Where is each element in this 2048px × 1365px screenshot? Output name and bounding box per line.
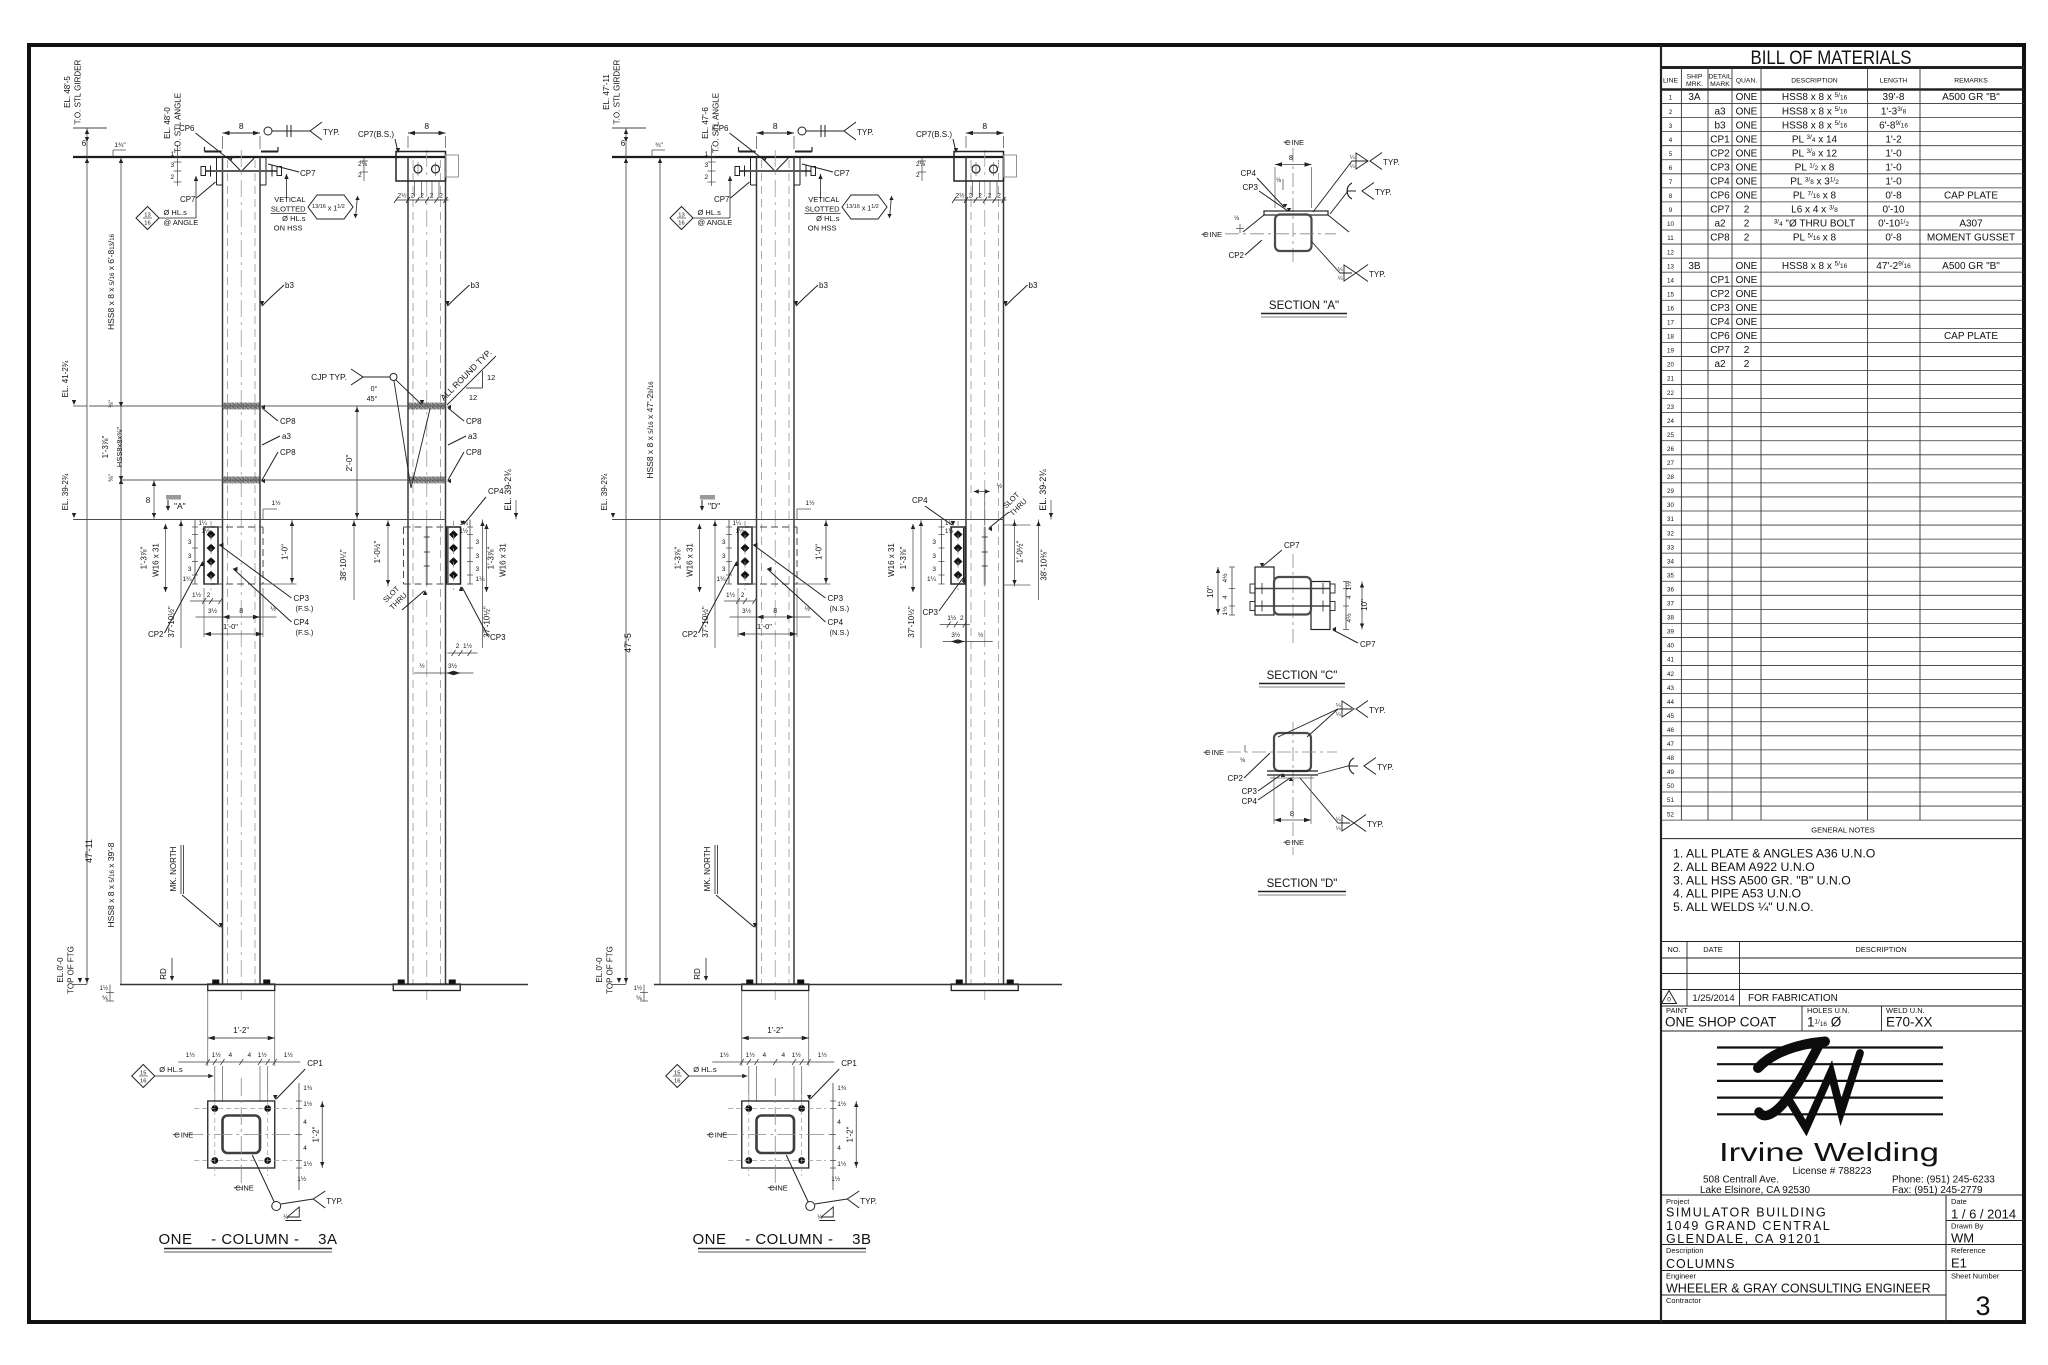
svg-text:Ø HL.s: Ø HL.s [159,1065,183,1074]
svg-text:8: 8 [1290,809,1294,818]
svg-text:PL 3/8 x 12: PL 3/8 x 12 [1792,148,1838,159]
svg-text:½: ½ [978,631,984,639]
section C left angle CP7 [1255,567,1274,615]
svg-text:INE: INE [241,1184,254,1193]
svg-text:1'-3⅞": 1'-3⅞" [101,436,110,459]
svg-text:CP3: CP3 [490,633,506,642]
svg-text:4: 4 [762,1052,766,1059]
svg-text:8: 8 [1289,153,1293,162]
svg-text:SECTION "C": SECTION "C" [1267,670,1338,682]
3B girder level tick [612,127,646,129]
svg-text:3: 3 [932,553,936,560]
svg-text:45: 45 [1667,713,1674,720]
svg-text:1½: 1½ [202,528,210,535]
svg-text:EL. 39-2¾: EL. 39-2¾ [61,473,70,510]
svg-text:CP3: CP3 [1710,162,1730,173]
svg-text:CP3: CP3 [1241,787,1257,796]
3B hole lines [748,1066,750,1101]
svg-text:CP1: CP1 [1710,275,1730,286]
revision table [1661,941,2024,943]
svg-text:1'-0½": 1'-0½" [373,541,382,564]
3A base plate outline (plan) [208,1101,275,1168]
svg-text:0: 0 [1667,997,1671,1004]
svg-text:2. ALL BEAM A922 U.N.O: 2. ALL BEAM A922 U.N.O [1673,860,1815,874]
svg-text:Ø HL.s: Ø HL.s [693,1065,717,1074]
svg-text:GLENDALE, CA 91201: GLENDALE, CA 91201 [1666,1232,1822,1246]
svg-text:2⅛: 2⅛ [358,161,368,168]
svg-text:GENERAL NOTES: GENERAL NOTES [1811,826,1875,835]
svg-text:47'-5: 47'-5 [623,633,633,653]
3A side shear plate CP3/CP4 far side [447,527,461,584]
svg-text:15: 15 [140,1071,146,1077]
column 3A side view HSS tube body [407,157,409,984]
svg-text:2: 2 [1744,219,1750,230]
svg-text:(F.S.): (F.S.) [296,604,314,613]
svg-text:INE: INE [1212,748,1225,757]
3B weld note [786,1155,808,1202]
svg-text:1½: 1½ [837,1160,847,1168]
svg-text:¼: ¼ [1336,826,1341,832]
paint / holes / weld row [1661,1005,2024,1007]
svg-text:CP2: CP2 [682,630,698,639]
svg-text:34: 34 [1667,558,1674,565]
3A foundation line [120,984,528,986]
svg-text:1½: 1½ [297,1175,307,1183]
svg-text:CP7: CP7 [714,195,730,204]
svg-text:TOP OF FTG: TOP OF FTG [67,946,76,994]
svg-text:1'-0: 1'-0 [1885,162,1902,173]
3A side dim 8 [408,132,446,134]
svg-text:28: 28 [1667,474,1674,481]
svg-text:3½: 3½ [448,662,458,670]
svg-text:3B: 3B [1688,261,1701,272]
svg-text:2: 2 [456,643,460,650]
svg-text:1'-0": 1'-0" [815,544,824,560]
svg-text:16: 16 [1667,305,1674,312]
svg-text:Drawn By: Drawn By [1951,1222,1984,1231]
3A HSS outline (plan) [223,1116,261,1154]
svg-text:WM: WM [1951,1231,1974,1246]
svg-text:ONE: ONE [1736,275,1758,286]
column 3B side view HSS tube body [965,157,967,984]
svg-text:2: 2 [705,174,709,181]
svg-text:CP3: CP3 [828,594,844,603]
svg-text:2: 2 [171,174,175,181]
section D top weld flag [1278,709,1352,737]
svg-text:1049 GRAND CENTRAL: 1049 GRAND CENTRAL [1666,1219,1831,1233]
3A inner dim line [120,157,122,984]
svg-text:38'-10¼": 38'-10¼" [339,549,348,581]
svg-text:1¼: 1¼ [182,576,192,583]
svg-text:3: 3 [722,566,726,573]
section D bottom plates [1267,770,1318,772]
3B side base plate CP1 [951,984,1018,991]
3B side slot offset dim [974,491,990,493]
svg-text:CP8: CP8 [280,448,296,457]
svg-text:b3: b3 [285,281,294,290]
general notes bar [1661,838,2024,840]
svg-text:1½: 1½ [1221,606,1229,616]
svg-text:1½: 1½ [947,614,957,622]
svg-text:TYP.: TYP. [323,128,340,137]
svg-text:10: 10 [1667,221,1674,228]
svg-text:SECTION "A": SECTION "A" [1269,300,1339,312]
svg-text:38: 38 [1667,615,1674,622]
title block divider [1660,45,1662,1322]
3A band CP8 upper line [89,405,446,407]
svg-text:CP7: CP7 [834,169,850,178]
svg-text:License # 788223: License # 788223 [1793,1166,1872,1177]
svg-text:CP7(B.S.): CP7(B.S.) [358,130,394,139]
svg-text:CP3: CP3 [1242,183,1258,192]
svg-text:CP2: CP2 [1710,148,1730,159]
svg-text:CP7: CP7 [1360,640,1376,649]
svg-text:39: 39 [1667,629,1674,636]
svg-text:EL. 39-2¾: EL. 39-2¾ [1038,469,1048,511]
svg-text:EL. 41-2¾: EL. 41-2¾ [61,360,70,397]
svg-text:T.O. STL GIRDER: T.O. STL GIRDER [613,59,622,124]
svg-text:CP6: CP6 [1710,331,1730,342]
3B bolt center dashes [728,1108,826,1110]
svg-text:⅜": ⅜" [108,399,115,407]
svg-text:1½: 1½ [837,1100,847,1108]
section A HSS [1275,215,1312,252]
svg-text:23: 23 [1667,404,1674,411]
svg-text:TOP OF FTG: TOP OF FTG [606,946,615,994]
svg-text:DESCRIPTION: DESCRIPTION [1791,78,1838,85]
3A front dim 8 [223,132,261,134]
3A band CP8 lower line [121,479,446,481]
svg-text:CP3: CP3 [294,594,310,603]
svg-text:15: 15 [674,1071,680,1077]
svg-text:ONE - COLUMN - 3A: ONE - COLUMN - 3A [158,1231,337,1248]
3B front hole diamond note [670,207,693,230]
svg-text:2: 2 [916,172,920,179]
svg-text:3A: 3A [1688,92,1701,103]
svg-text:0'-8: 0'-8 [1885,233,1902,244]
column 3B front view HSS tube body [756,157,758,984]
3A bolt gage chain [178,1061,300,1063]
svg-text:ONE: ONE [1736,331,1758,342]
3B side dim 8 [966,132,1004,134]
svg-text:¼: ¼ [1336,712,1341,718]
svg-text:8: 8 [982,121,987,131]
svg-text:CP4: CP4 [488,487,504,496]
svg-text:1'-3⅞": 1'-3⅞" [899,547,908,570]
3B side bolt-row dims [941,520,943,585]
3B anchor bolts [745,1105,752,1112]
svg-text:¾": ¾" [655,142,663,149]
BOM header underline [1661,88,2024,91]
3B centerlines [719,1134,832,1136]
svg-text:DESCRIPTION: DESCRIPTION [1855,945,1906,954]
svg-text:3: 3 [171,162,175,169]
svg-text:1½: 1½ [806,499,816,507]
section A centerline horizontal [1225,233,1336,235]
svg-text:1¼: 1¼ [476,576,486,583]
svg-text:TYP.: TYP. [857,128,874,137]
svg-text:1¼: 1¼ [716,576,726,583]
svg-text:10": 10" [1206,586,1215,598]
svg-text:2: 2 [969,193,973,200]
svg-text:2: 2 [1744,359,1750,370]
3B front slot size hexagon [842,195,887,219]
svg-text:CP1: CP1 [307,1059,323,1068]
svg-text:CAP PLATE: CAP PLATE [1944,331,1998,342]
svg-text:RD: RD [693,968,702,980]
3A side gage dims [396,199,449,201]
svg-text:4. ALL PIPE A53 U.N.O: 4. ALL PIPE A53 U.N.O [1673,887,1801,901]
svg-text:¼: ¼ [1336,817,1341,823]
svg-text:(N.S.): (N.S.) [830,628,850,637]
3A base plan: extension lines [207,991,209,1066]
svg-text:1. ALL PLATE & ANGLES A36 U.N.: 1. ALL PLATE & ANGLES A36 U.N.O [1673,847,1875,861]
svg-text:½: ½ [997,482,1003,490]
svg-text:4: 4 [303,1119,307,1126]
svg-text:ONE: ONE [1736,162,1758,173]
svg-text:16: 16 [678,221,684,227]
svg-text:8: 8 [239,608,243,615]
svg-text:1'-0": 1'-0" [281,544,290,560]
svg-text:INE: INE [1292,138,1305,147]
svg-text:3. ALL HSS A500 GR. "B" U.N.O: 3. ALL HSS A500 GR. "B" U.N.O [1673,873,1851,887]
svg-text:Fax: (951) 245-2779: Fax: (951) 245-2779 [1892,1185,1983,1196]
3A bolt center dashes [194,1108,292,1110]
3A hole lines [214,1066,216,1101]
svg-text:2⅛: 2⅛ [916,161,926,168]
3A side cap bolts [414,165,422,173]
svg-text:CP7: CP7 [1710,205,1730,216]
svg-text:CP7: CP7 [1284,541,1300,550]
svg-text:4: 4 [228,1052,232,1059]
svg-text:FOR FABRICATION: FOR FABRICATION [1748,993,1838,1004]
svg-text:EL. 47'-6: EL. 47'-6 [701,107,710,139]
svg-text:6: 6 [82,139,87,148]
svg-text:REMARKS: REMARKS [1954,78,1988,85]
svg-text:W16 x 31: W16 x 31 [686,543,695,577]
svg-text:NO.: NO. [1667,945,1680,954]
svg-text:1'-3⅞": 1'-3⅞" [487,547,496,570]
3A front beam stub hidden lines [204,526,263,528]
BOM title underline [1661,66,2024,69]
svg-text:14: 14 [1667,277,1674,284]
section D mid weld flag [1318,766,1358,774]
svg-text:1½: 1½ [284,1051,294,1059]
svg-text:2: 2 [997,193,1001,200]
svg-text:EL.0'-0: EL.0'-0 [56,957,65,983]
svg-text:ONE: ONE [1736,261,1758,272]
3B front right depth dim 1-0 [825,520,827,585]
section A weld flag 3 [1311,241,1352,273]
svg-text:1½: 1½ [186,1051,196,1059]
svg-text:1'-3⅞": 1'-3⅞" [674,547,683,570]
3A front base plate CP1 [208,984,275,991]
svg-text:1'-0": 1'-0" [757,622,772,631]
section A vertical centerline [1292,148,1294,262]
3B front beam stub hidden lines [738,526,797,528]
svg-text:Sheet Number: Sheet Number [1951,1272,2000,1281]
svg-text:2: 2 [358,172,362,179]
svg-text:0'-10: 0'-10 [1883,205,1905,216]
svg-text:45°: 45° [367,395,378,403]
svg-text:A500 GR "B": A500 GR "B" [1942,261,2000,272]
3B dim 1-2 [742,1037,809,1039]
3A front bolts (diamonds) [207,530,216,539]
svg-text:@ ANGLE: @ ANGLE [164,218,199,227]
svg-text:6: 6 [1669,165,1673,172]
svg-text:43: 43 [1667,685,1674,692]
svg-text:40: 40 [1667,643,1674,650]
svg-text:1½: 1½ [818,1051,828,1059]
svg-text:8: 8 [146,496,151,505]
svg-text:52: 52 [1667,811,1674,818]
svg-text:3½: 3½ [742,607,752,615]
section D vertical centerline [1292,722,1294,855]
svg-text:1½: 1½ [258,1051,268,1059]
svg-text:6: 6 [621,139,626,148]
3A anchor bolts [211,1105,218,1112]
svg-text:TYP.: TYP. [1383,158,1400,167]
svg-text:3: 3 [476,566,480,573]
svg-text:HSS8 x 8 x 5/16 x 47'-29/16: HSS8 x 8 x 5/16 x 47'-29/16 [645,381,655,479]
svg-text:3: 3 [188,539,192,546]
3A hole size diamond [132,1065,155,1088]
svg-text:TYP.: TYP. [1369,270,1386,279]
svg-text:Lake Elsinore, CA 92530: Lake Elsinore, CA 92530 [1700,1185,1811,1196]
svg-text:3: 3 [188,553,192,560]
BOM grid verticals [1680,68,1682,821]
svg-text:T.O. STL GIRDER: T.O. STL GIRDER [74,59,83,124]
svg-text:19: 19 [1667,348,1674,355]
svg-text:INE: INE [715,1131,728,1140]
svg-text:BILL OF MATERIALS: BILL OF MATERIALS [1751,48,1912,69]
svg-text:1½: 1½ [1345,581,1353,591]
3A beam section cut symbol A [166,495,181,500]
svg-text:¼: ¼ [1350,155,1355,161]
svg-text:1¼: 1¼ [733,521,742,527]
svg-text:Ø HL.s: Ø HL.s [698,208,722,217]
3B foundation line [654,984,1062,986]
svg-text:49: 49 [1667,769,1674,776]
section C bolts [1255,588,1330,590]
section D HSS [1274,733,1311,771]
svg-text:2: 2 [207,592,211,599]
3B overall dim line 47-5 [625,143,627,984]
svg-text:21: 21 [1667,376,1674,383]
section C right dims [1345,582,1347,630]
svg-text:ON HSS: ON HSS [808,224,837,233]
svg-text:EL. 39-2¾: EL. 39-2¾ [600,473,609,510]
svg-text:QUAN.: QUAN. [1736,78,1758,85]
svg-text:3/4 "Ø THRU BOLT: 3/4 "Ø THRU BOLT [1774,218,1856,229]
svg-text:b3: b3 [471,281,480,290]
svg-text:47'-11: 47'-11 [84,839,94,863]
svg-text:8: 8 [773,608,777,615]
svg-text:1'-33/8: 1'-33/8 [1881,106,1907,117]
3A weld note [252,1155,274,1202]
svg-text:MK. NORTH: MK. NORTH [703,846,712,891]
svg-text:Description: Description [1666,1246,1704,1255]
svg-text:INE: INE [1292,838,1305,847]
svg-text:TYP.: TYP. [1377,763,1394,772]
3B side shear plate CP3/CP4 far side [951,527,965,584]
svg-text:2: 2 [439,193,443,200]
svg-text:MK. NORTH: MK. NORTH [169,846,178,891]
svg-text:@ ANGLE: @ ANGLE [698,218,733,227]
Irvine Welding logo staff lines [1717,1046,1943,1048]
3B side slot-thru line [984,527,986,585]
section A weld flag 2 [1330,191,1356,214]
3B inner dim line [659,157,661,984]
svg-text:CAP PLATE: CAP PLATE [1944,191,1998,202]
svg-text:0'-101/2: 0'-101/2 [1878,218,1909,229]
svg-text:"D": "D" [708,501,720,511]
svg-text:PL 5/16 x 8: PL 5/16 x 8 [1793,233,1837,244]
svg-text:1½: 1½ [192,591,202,599]
svg-text:a2: a2 [1714,359,1726,370]
svg-text:32: 32 [1667,530,1674,537]
svg-text:CP4: CP4 [1241,797,1257,806]
svg-text:3: 3 [1669,123,1673,130]
svg-text:16: 16 [140,1079,146,1085]
svg-text:18: 18 [1667,334,1674,341]
svg-text:b3: b3 [819,281,828,290]
section D dim 8 [1274,819,1311,821]
svg-text:41: 41 [1667,657,1674,664]
svg-text:15: 15 [1667,291,1674,298]
svg-text:CJP TYP.: CJP TYP. [311,372,347,382]
3B base plate outline (plan) [742,1101,809,1168]
svg-text:¼: ¼ [1338,276,1343,282]
svg-text:508 Centrall Ave.: 508 Centrall Ave. [1703,1175,1779,1186]
svg-text:Ø HL.s: Ø HL.s [282,214,306,223]
svg-text:E70-XX: E70-XX [1886,1015,1933,1030]
3B front weld symbol TYP [798,127,806,135]
svg-text:33: 33 [1667,544,1674,551]
svg-text:LINE: LINE [1663,78,1679,85]
3B side cap bolts [972,165,980,173]
svg-text:4: 4 [1669,137,1673,144]
svg-text:2: 2 [420,193,424,200]
svg-text:ONE: ONE [1736,289,1758,300]
3A top of steel line [73,156,446,158]
3B top of steel line [612,156,1004,158]
section C HSS [1274,577,1311,615]
svg-text:1½: 1½ [463,642,473,650]
svg-text:37: 37 [1667,601,1674,608]
svg-text:ON HSS: ON HSS [274,224,303,233]
svg-text:2: 2 [988,193,992,200]
3B base plan: extension lines [741,991,743,1066]
3B side cap plate CP7 (B.S.) box [954,152,1004,182]
3A side cap plate CP7 (B.S.) box [396,152,446,182]
svg-text:EL. 47'-11: EL. 47'-11 [602,74,611,110]
svg-text:"A": "A" [174,501,186,511]
3A all-round weld note [447,356,496,405]
svg-text:2'-0": 2'-0" [344,455,354,472]
3A front cap assembly CP6/CP7 [205,151,222,153]
svg-text:3: 3 [722,553,726,560]
3A side beam stub hidden lines [404,526,447,528]
svg-text:VETICAL: VETICAL [808,195,839,204]
svg-text:12: 12 [487,373,495,382]
svg-text:CP7: CP7 [1710,345,1730,356]
svg-text:ONE: ONE [1736,148,1758,159]
svg-text:1½: 1½ [746,1051,756,1059]
svg-text:CP1: CP1 [1710,134,1730,145]
svg-text:TYP.: TYP. [1367,820,1384,829]
svg-text:8: 8 [239,121,244,131]
